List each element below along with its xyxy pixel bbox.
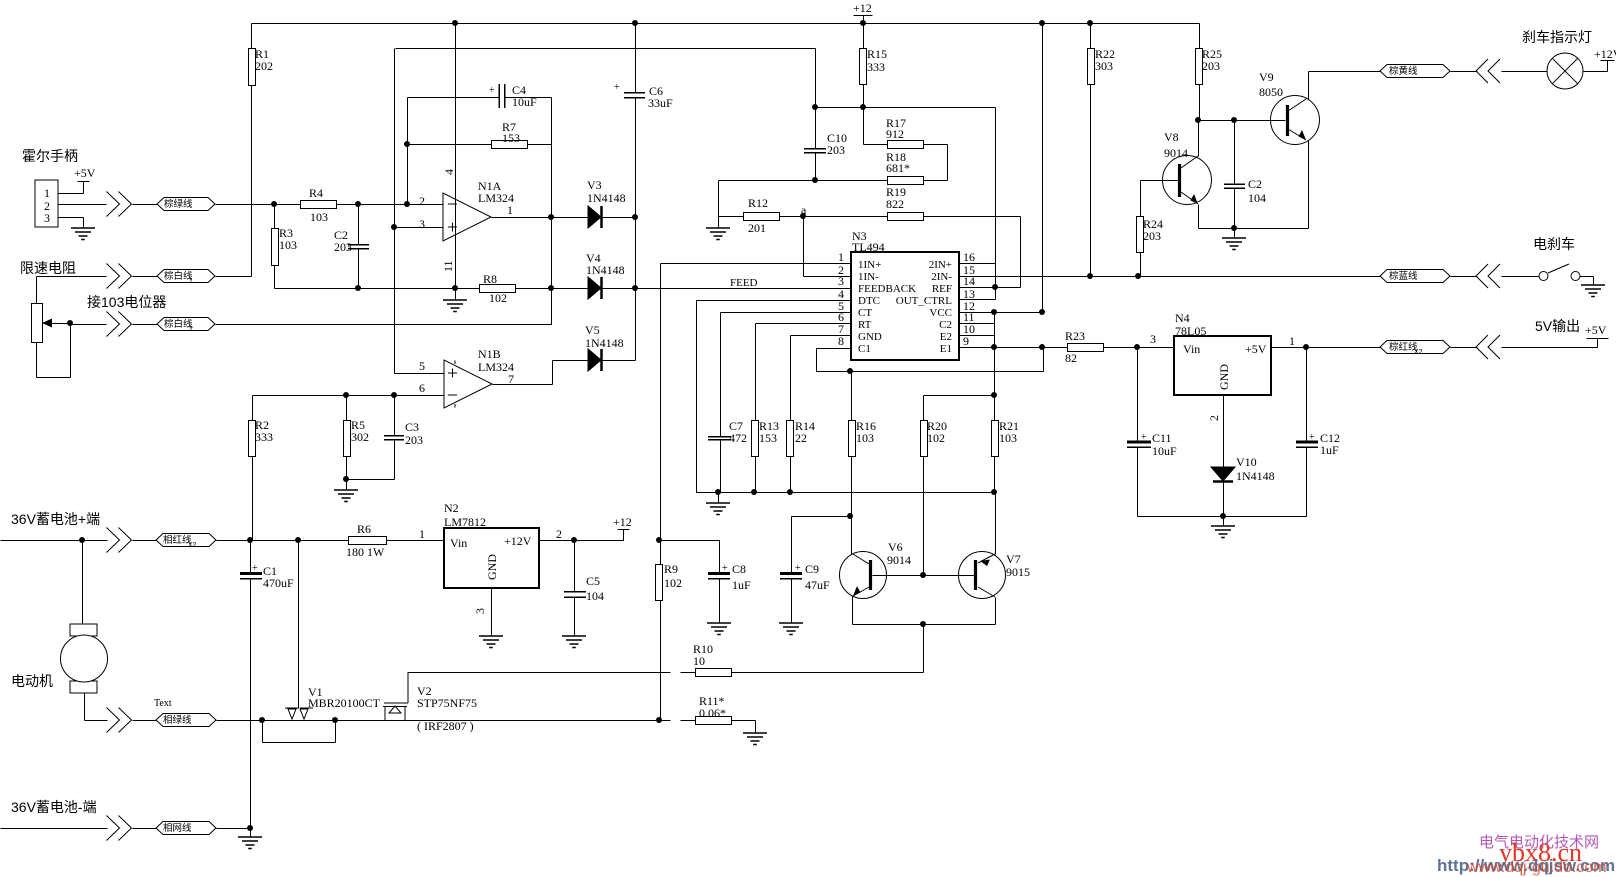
svg-text:STP75NF75: STP75NF75 [417, 696, 477, 710]
svg-text:2: 2 [556, 527, 562, 541]
svg-text:102: 102 [664, 576, 682, 590]
svg-text:202: 202 [255, 59, 273, 73]
svg-text:203: 203 [405, 433, 423, 447]
svg-text:2IN+: 2IN+ [929, 259, 952, 271]
svg-text:470uF: 470uF [263, 576, 294, 590]
svg-text:3: 3 [419, 217, 425, 231]
svg-text:限速电阻: 限速电阻 [20, 260, 76, 276]
svg-text:1N4148: 1N4148 [587, 191, 626, 205]
svg-text:FEEDBACK: FEEDBACK [858, 283, 916, 295]
svg-text:103: 103 [310, 210, 328, 224]
svg-text:+5V: +5V [74, 166, 96, 180]
svg-text:R15: R15 [867, 47, 887, 61]
svg-text:+: + [489, 85, 495, 96]
svg-text:+12V: +12V [504, 534, 532, 548]
svg-text:1: 1 [419, 527, 425, 541]
svg-text:33uF: 33uF [648, 96, 673, 110]
svg-text:E1: E1 [940, 343, 952, 355]
svg-text:DTC: DTC [858, 295, 880, 307]
svg-text:4: 4 [442, 169, 456, 175]
svg-text:10: 10 [693, 654, 705, 668]
svg-text:OUT_CTRL: OUT_CTRL [896, 295, 953, 307]
svg-text:102: 102 [927, 431, 945, 445]
svg-text:153: 153 [502, 131, 520, 145]
svg-text:3: 3 [44, 211, 50, 225]
svg-text:2IN-: 2IN- [931, 271, 952, 283]
svg-text:a: a [801, 203, 807, 217]
svg-text:153: 153 [759, 431, 777, 445]
svg-text:GND: GND [485, 554, 499, 580]
svg-text:N1B: N1B [478, 347, 501, 361]
svg-text:V10: V10 [1236, 455, 1257, 469]
svg-text:1: 1 [1289, 334, 1295, 348]
svg-text:82: 82 [1065, 351, 1077, 365]
svg-text:V6: V6 [888, 540, 903, 554]
svg-text:103: 103 [279, 238, 297, 252]
svg-text:GND: GND [858, 331, 882, 343]
svg-text:REF: REF [932, 283, 952, 295]
svg-text:333: 333 [255, 430, 273, 444]
svg-text:5: 5 [419, 359, 425, 373]
svg-text:912: 912 [886, 127, 904, 141]
svg-text:203: 203 [1202, 59, 1220, 73]
svg-text:1IN-: 1IN- [858, 271, 879, 283]
svg-text:C2: C2 [1248, 177, 1262, 191]
svg-text:302: 302 [351, 430, 369, 444]
svg-text:104: 104 [586, 589, 604, 603]
svg-text:3: 3 [473, 608, 487, 614]
svg-text:N2: N2 [444, 501, 459, 515]
svg-text:1IN+: 1IN+ [858, 259, 881, 271]
svg-text:N4: N4 [1175, 311, 1190, 325]
svg-text:V9: V9 [1259, 70, 1274, 84]
svg-text:C5: C5 [586, 574, 600, 588]
svg-text:CT: CT [858, 307, 872, 319]
svg-text:V3: V3 [587, 178, 602, 192]
svg-text:2: 2 [419, 194, 425, 208]
svg-text:GND: GND [1217, 364, 1231, 390]
svg-text:+12: +12 [613, 515, 632, 529]
svg-text:9014: 9014 [887, 553, 911, 567]
svg-text:8: 8 [838, 334, 844, 348]
svg-text:MBR20100CT: MBR20100CT [308, 696, 381, 710]
svg-text:3: 3 [1150, 332, 1156, 346]
svg-text:C8: C8 [732, 562, 746, 576]
svg-text:2: 2 [1207, 415, 1221, 421]
svg-text:0.06*: 0.06* [699, 706, 726, 720]
svg-text:+: + [795, 563, 801, 574]
svg-text:VCC: VCC [929, 307, 952, 319]
svg-text:9: 9 [963, 334, 969, 348]
svg-text:FEED: FEED [730, 277, 758, 289]
svg-text:22: 22 [795, 431, 807, 445]
svg-text:C3: C3 [405, 420, 419, 434]
svg-text:1N4148: 1N4148 [586, 263, 625, 277]
svg-text:相网线: 相网线 [163, 822, 192, 834]
svg-text:5V输出: 5V输出 [1535, 318, 1580, 334]
svg-text:+5V: +5V [1585, 323, 1607, 337]
svg-text:303: 303 [1095, 59, 1113, 73]
svg-text:TL494: TL494 [852, 240, 885, 254]
svg-text:78L05: 78L05 [1175, 324, 1206, 338]
svg-text:472: 472 [729, 431, 747, 445]
svg-text:1N4148: 1N4148 [1236, 469, 1275, 483]
svg-text:LM7812: LM7812 [444, 515, 486, 529]
svg-text:棕蓝线: 棕蓝线 [1389, 270, 1418, 282]
svg-text:R23: R23 [1065, 329, 1085, 343]
svg-text:V8: V8 [1164, 130, 1179, 144]
svg-text:36V蓄电池-端: 36V蓄电池-端 [11, 799, 97, 815]
svg-text:103: 103 [999, 431, 1017, 445]
svg-text:102: 102 [489, 291, 507, 305]
svg-text:10uF: 10uF [1152, 444, 1177, 458]
svg-text:+12V: +12V [1594, 47, 1616, 61]
svg-text:1: 1 [44, 186, 50, 200]
svg-text:R6: R6 [357, 522, 371, 536]
svg-text:+: + [1141, 432, 1147, 443]
svg-text:36V蓄电池+端: 36V蓄电池+端 [11, 511, 100, 527]
svg-text:203: 203 [827, 143, 845, 157]
svg-text:9014: 9014 [1164, 146, 1188, 160]
svg-text:47uF: 47uF [805, 578, 830, 592]
svg-text:R8: R8 [483, 272, 497, 286]
svg-text:103: 103 [856, 431, 874, 445]
svg-text:棕绿线: 棕绿线 [164, 198, 193, 210]
svg-text:X2: X2 [188, 542, 197, 549]
svg-text:1uF: 1uF [1320, 443, 1339, 457]
svg-text:8050: 8050 [1259, 85, 1283, 99]
svg-text:Vin: Vin [1183, 342, 1200, 356]
svg-text:180 1W: 180 1W [346, 545, 385, 559]
svg-text:1: 1 [189, 278, 193, 285]
svg-text:V5: V5 [585, 323, 600, 337]
svg-text:681*: 681* [886, 161, 910, 175]
svg-text:+: + [1309, 432, 1315, 443]
svg-text:C2: C2 [939, 319, 952, 331]
svg-text:刹车指示灯: 刹车指示灯 [1522, 29, 1592, 45]
svg-text:7: 7 [508, 372, 514, 386]
svg-text:104: 104 [1248, 191, 1266, 205]
svg-text:Text: Text [154, 698, 172, 709]
svg-text:+: + [252, 563, 258, 574]
svg-text:R4: R4 [309, 186, 323, 200]
svg-text:电刹车: 电刹车 [1533, 236, 1575, 252]
svg-text:1N4148: 1N4148 [585, 336, 624, 350]
svg-text:R9: R9 [664, 562, 678, 576]
svg-text:3: 3 [838, 274, 844, 288]
svg-text:1: 1 [507, 203, 513, 217]
svg-text:2: 2 [189, 326, 193, 333]
svg-text:1uF: 1uF [732, 578, 751, 592]
svg-text:C1: C1 [858, 343, 871, 355]
svg-text:www.dqj-gu.do.com: www.dqj-gu.do.com [1466, 859, 1607, 876]
svg-text:C9: C9 [805, 562, 819, 576]
svg-text:相绿线: 相绿线 [163, 714, 192, 726]
svg-text:+5V: +5V [1245, 342, 1267, 356]
svg-text:333: 333 [867, 60, 885, 74]
svg-text:( IRF2807 ): ( IRF2807 ) [417, 719, 474, 733]
svg-text:6: 6 [419, 381, 425, 395]
svg-text:9015: 9015 [1006, 565, 1030, 579]
svg-text:822: 822 [886, 197, 904, 211]
svg-text:E2: E2 [940, 331, 952, 343]
svg-text:V7: V7 [1006, 552, 1021, 566]
svg-text:+: + [722, 563, 728, 574]
svg-text:1: 1 [838, 250, 844, 264]
svg-text:RT: RT [858, 319, 872, 331]
svg-text:+: + [614, 82, 620, 93]
svg-text:R12: R12 [748, 196, 768, 210]
svg-text:+12: +12 [853, 1, 872, 15]
svg-text:接103电位器: 接103电位器 [87, 294, 166, 310]
svg-text:霍尔手柄: 霍尔手柄 [22, 148, 78, 164]
svg-text:电动机: 电动机 [11, 673, 53, 689]
svg-text:X2: X2 [1414, 349, 1423, 356]
svg-text:203: 203 [1143, 229, 1161, 243]
svg-text:203: 203 [334, 240, 352, 254]
svg-text:Vin: Vin [450, 536, 467, 550]
svg-text:棕黄线: 棕黄线 [1389, 65, 1418, 77]
svg-text:16: 16 [963, 250, 975, 264]
svg-text:201: 201 [748, 221, 766, 235]
svg-text:C11: C11 [1152, 431, 1172, 445]
svg-text:11: 11 [441, 260, 455, 272]
svg-text:14: 14 [963, 274, 975, 288]
svg-text:10uF: 10uF [512, 95, 537, 109]
